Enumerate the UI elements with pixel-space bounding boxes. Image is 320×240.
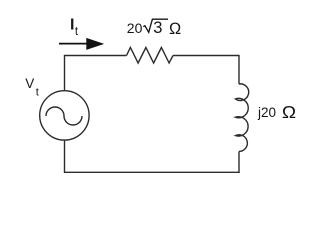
svg-text:V: V (25, 76, 34, 91)
radical sign (143, 19, 168, 32)
wire: bottom horizontal (64, 171, 240, 173)
svg-text:t: t (36, 87, 39, 99)
wire: top horizontal right segment (173, 55, 239, 57)
inductor L j20 ohm coil (236, 84, 249, 152)
svg-text:I: I (70, 17, 74, 34)
wire: left vertical upper (64, 55, 66, 91)
voltage source sine wave (46, 107, 82, 125)
voltage source V_t circle (40, 91, 89, 140)
current arrow I_t shaft (59, 43, 90, 45)
svg-text:3: 3 (153, 19, 162, 37)
wire: right vertical upper (238, 55, 240, 84)
svg-text:Ω: Ω (169, 20, 181, 38)
resistor R 20sqrt3 ohm zigzag (127, 48, 174, 64)
wire: top horizontal left segment (65, 55, 127, 57)
wire: right vertical lower (238, 151, 240, 173)
svg-text:j20: j20 (257, 105, 276, 120)
svg-text:Ω: Ω (282, 102, 296, 122)
svg-text:20: 20 (127, 20, 143, 36)
wire: left vertical lower (64, 140, 66, 172)
current arrow I_t head (86, 38, 104, 50)
